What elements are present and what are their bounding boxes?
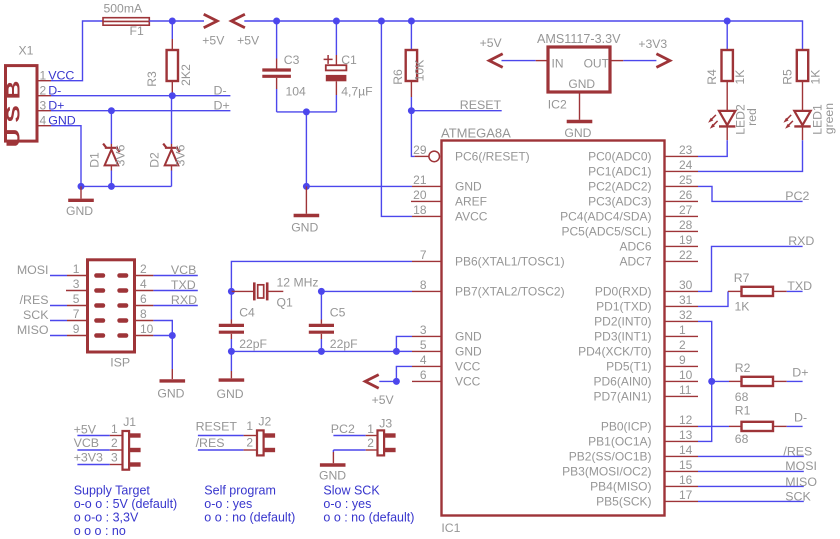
wire /RES net <box>698 455 804 457</box>
junction R6 rail <box>408 18 415 25</box>
svg-text:31: 31 <box>679 293 693 307</box>
wire C1 top <box>335 21 337 65</box>
svg-text:AREF: AREF <box>455 195 487 209</box>
svg-text:8: 8 <box>140 307 147 321</box>
label MISO right <box>785 475 817 489</box>
svg-text:1: 1 <box>111 422 118 436</box>
pin stub IC2 IN <box>536 60 548 62</box>
svg-text:IN: IN <box>552 56 564 70</box>
pin stubs IC1 left <box>411 156 442 381</box>
junction mid gnd2 <box>303 183 310 190</box>
svg-text:2: 2 <box>246 435 253 449</box>
label R2 value <box>735 390 749 404</box>
svg-text:2: 2 <box>40 83 47 97</box>
wire VCB isp <box>153 275 197 277</box>
wire D+ net <box>51 110 230 112</box>
svg-text:PD6(AIN0): PD6(AIN0) <box>593 375 651 389</box>
svg-text:10K: 10K <box>413 60 427 82</box>
svg-text:1K: 1K <box>733 70 747 85</box>
svg-text:ATMEGA8A: ATMEGA8A <box>441 125 511 140</box>
wire RXD net <box>698 246 803 291</box>
diode D1 (zener 3V6) <box>103 144 120 171</box>
wire PC2 net <box>698 186 803 201</box>
label LED2 <box>734 104 748 135</box>
svg-text:PB1(OC1A): PB1(OC1A) <box>588 435 651 449</box>
wire RESET net <box>411 110 501 112</box>
svg-text:5: 5 <box>420 338 427 352</box>
junction D1 bottom <box>108 183 115 190</box>
wires J1 <box>77 436 122 465</box>
wire C1 bottom <box>335 81 337 112</box>
svg-text:11: 11 <box>679 383 692 397</box>
svg-text:D2: D2 <box>148 152 162 168</box>
ground symbol j3 <box>320 463 346 466</box>
pin number USB 2 <box>40 83 47 97</box>
label D1 <box>88 152 102 168</box>
wire pin4 jog <box>396 366 412 381</box>
label OUT <box>584 56 610 70</box>
label ISP <box>110 355 130 369</box>
svg-text:PC5(ADC5/SCL): PC5(ADC5/SCL) <box>561 225 651 239</box>
label +3V3 j1 <box>74 451 103 465</box>
wire pin7 to xtal1 <box>231 261 412 291</box>
label GND usb sym <box>66 204 93 218</box>
svg-text:28: 28 <box>679 218 693 232</box>
pin number J2-2 <box>246 435 253 449</box>
svg-text:26: 26 <box>679 188 693 202</box>
svg-text:TXD: TXD <box>171 278 196 292</box>
junction mid gnd <box>303 108 310 115</box>
annotation text at x=323.4 <box>323 484 414 525</box>
wire TXD net <box>787 290 803 292</box>
gnd stub usb <box>80 186 82 198</box>
svg-text:D1: D1 <box>88 152 102 168</box>
svg-text:3V6: 3V6 <box>114 144 128 166</box>
pin stub R2 right <box>773 380 787 382</box>
label ATMEGA8A <box>441 125 511 140</box>
pin stub R1 right <box>773 425 787 427</box>
label VCB isp <box>171 263 196 277</box>
gnd stub mid <box>305 186 307 213</box>
svg-text:D+: D+ <box>792 366 808 380</box>
svg-text:GND: GND <box>455 345 482 359</box>
label C3 value <box>286 85 307 99</box>
wire gnd row 351 <box>231 350 396 352</box>
label R3 value <box>179 64 193 86</box>
svg-text:7: 7 <box>420 248 427 262</box>
svg-text:2: 2 <box>367 436 374 450</box>
power symbol +3V3 <box>656 54 670 68</box>
label D- end <box>214 83 227 97</box>
pin stub R2 left <box>729 380 742 382</box>
svg-text:red: red <box>745 108 759 126</box>
svg-text:4,7µF: 4,7µF <box>341 85 372 99</box>
svg-text:24: 24 <box>679 158 693 172</box>
label R7 <box>734 271 750 285</box>
wire ISP pin8 gnd <box>153 321 172 336</box>
wire J3 gnd drop <box>332 450 334 463</box>
svg-text:RESET: RESET <box>196 420 238 434</box>
jumper J3 <box>378 430 396 455</box>
label D1 value <box>114 144 128 166</box>
junction avcc rail <box>378 18 385 25</box>
label /RES j2 <box>196 436 225 450</box>
label Q1 value <box>277 275 319 289</box>
wire C4 bottom <box>230 334 232 352</box>
pin number USB 1 <box>40 68 47 82</box>
svg-text:Q1: Q1 <box>277 295 293 309</box>
svg-text:22: 22 <box>679 248 693 262</box>
wire C3 top <box>276 21 278 69</box>
svg-text:AVCC: AVCC <box>455 210 488 224</box>
label /RES isp <box>20 293 49 307</box>
connector X1 box <box>6 66 38 142</box>
label C5 value <box>330 337 358 351</box>
svg-text:16: 16 <box>679 473 693 487</box>
resistor R2 <box>742 377 774 386</box>
wire avcc <box>381 21 412 216</box>
svg-text:18: 18 <box>413 203 427 217</box>
svg-text:PC2(ADC2): PC2(ADC2) <box>588 180 651 194</box>
label R7 value <box>735 299 750 313</box>
svg-text:32: 32 <box>679 308 693 322</box>
label D2 <box>148 152 162 168</box>
svg-text:Slow SCK: Slow SCK <box>323 484 380 498</box>
pin stub IC2 GND <box>579 92 581 120</box>
junction pin3/5 gnd <box>393 348 400 355</box>
svg-text:J2: J2 <box>258 415 271 429</box>
svg-text:R6: R6 <box>391 69 405 85</box>
label SCK right <box>785 489 811 503</box>
svg-text:22pF: 22pF <box>239 337 267 351</box>
svg-text:+5V: +5V <box>480 36 503 50</box>
label R6 value <box>413 60 427 82</box>
svg-text:+3V3: +3V3 <box>638 37 667 51</box>
svg-text:6: 6 <box>140 292 147 306</box>
power symbol +5V mcu <box>365 375 379 389</box>
svg-text:2: 2 <box>679 338 686 352</box>
svg-text:ADC6: ADC6 <box>619 240 651 254</box>
svg-text:2: 2 <box>140 262 147 276</box>
jumper J1 <box>123 431 141 470</box>
crystal Q1 <box>254 282 267 300</box>
ground symbol usb <box>68 199 94 202</box>
label MISO isp <box>17 323 49 337</box>
resistor R5 <box>797 50 808 111</box>
label IC2 <box>548 98 567 112</box>
wire PC2 j3 <box>333 435 377 437</box>
svg-text:J1: J1 <box>123 415 136 429</box>
wire LED2 to pin23 <box>698 140 727 156</box>
pin stub USB 3 <box>37 110 51 112</box>
pin stub R7 left <box>728 290 742 292</box>
label LED1 color <box>822 103 836 134</box>
svg-text:PD0(RXD): PD0(RXD) <box>595 285 652 299</box>
svg-text:PD2(INT0): PD2(INT0) <box>594 315 651 329</box>
pin stub USB 2 <box>37 95 51 97</box>
pin stubs ISP left <box>66 276 88 336</box>
svg-text:8: 8 <box>420 278 427 292</box>
svg-text:ADC7: ADC7 <box>619 255 651 269</box>
svg-text:OUT: OUT <box>584 56 610 70</box>
svg-text:o o o : no: o o o : no <box>74 524 126 538</box>
svg-text:C4: C4 <box>239 305 255 319</box>
svg-text:PC0(ADC0): PC0(ADC0) <box>588 150 651 164</box>
wire D2 top <box>171 96 173 144</box>
wire pin8 to xtal2 <box>321 290 412 292</box>
wire IC2 out <box>623 60 656 62</box>
svg-text:5: 5 <box>73 292 80 306</box>
label X1 <box>19 43 34 57</box>
pin stubs ISP right <box>135 276 154 336</box>
svg-text:PB7(XTAL2/TOSC2): PB7(XTAL2/TOSC2) <box>455 285 565 299</box>
junction fuse/R3 <box>169 18 176 25</box>
label R5 value <box>808 70 822 85</box>
label +5V b <box>237 33 260 47</box>
wire MISO isp <box>50 335 67 337</box>
svg-text:green: green <box>822 103 836 134</box>
svg-text:22pF: 22pF <box>330 337 358 351</box>
wire ISP gnd drop <box>171 336 173 380</box>
svg-text:7: 7 <box>73 307 80 321</box>
junction C3 rail <box>273 18 280 25</box>
svg-text:PD1(TXD): PD1(TXD) <box>596 300 651 314</box>
wire SCK isp <box>50 320 67 322</box>
capacitor C4 <box>219 325 244 332</box>
label C1 <box>341 53 357 67</box>
wire R4 top <box>726 21 728 50</box>
svg-text:21: 21 <box>413 173 427 187</box>
svg-text:PC4(ADC4/SDA): PC4(ADC4/SDA) <box>560 210 651 224</box>
net label GND usb <box>48 113 76 127</box>
ground symbol mid <box>294 214 320 217</box>
svg-text:D-: D- <box>214 83 227 97</box>
wire MOSI net <box>698 470 804 472</box>
svg-text:3: 3 <box>40 98 47 112</box>
svg-text:IC2: IC2 <box>548 98 567 112</box>
svg-text:R1: R1 <box>735 403 751 417</box>
label J1 <box>123 415 136 429</box>
label AMS1117 <box>537 32 621 46</box>
svg-text:C5: C5 <box>330 305 346 319</box>
pin stub USB 4 <box>37 125 51 127</box>
label +5V ic2 <box>480 36 503 50</box>
label R2 <box>735 361 751 375</box>
svg-text:9: 9 <box>73 322 80 336</box>
annotation text at x=73.7 <box>74 484 178 539</box>
ground symbol xtal <box>219 378 245 381</box>
pin number J3-2 <box>367 436 374 450</box>
svg-text:1: 1 <box>246 419 253 433</box>
junction pin4/6 <box>393 378 400 385</box>
junction R2 tap <box>708 378 715 385</box>
svg-text:D-: D- <box>794 411 807 425</box>
junction xtal right <box>318 288 325 295</box>
label C5 <box>330 305 346 319</box>
svg-text:19: 19 <box>679 233 693 247</box>
wire pin3 jog <box>396 336 412 351</box>
svg-text:RXD: RXD <box>788 234 814 248</box>
svg-text:1: 1 <box>73 262 80 276</box>
label MOSI isp <box>17 263 49 277</box>
svg-text:500mA: 500mA <box>104 2 143 16</box>
junction ISP gnd <box>169 332 176 339</box>
label PC2 j3 <box>331 422 355 436</box>
wire C5 bottom <box>320 334 322 352</box>
svg-text:/RES: /RES <box>20 293 49 307</box>
svg-text:PC1(ADC1): PC1(ADC1) <box>588 165 651 179</box>
svg-text:o o : no (default): o o : no (default) <box>323 511 414 525</box>
pin number J1-3 <box>111 450 118 464</box>
wire +5V rail fuse to arrow <box>149 20 204 22</box>
svg-text:RESET: RESET <box>460 98 502 112</box>
wire IC2 in <box>502 60 536 62</box>
label J2 <box>258 415 271 429</box>
label J3 <box>379 416 392 430</box>
fuse F1 <box>103 18 149 26</box>
label TXD isp <box>171 278 196 292</box>
power symbol +5V left arrow <box>231 14 245 28</box>
jumper J2 <box>257 430 275 455</box>
svg-text:13: 13 <box>679 428 693 442</box>
svg-text:VCB: VCB <box>74 436 99 450</box>
svg-text:Self program: Self program <box>204 484 276 498</box>
junction C1 rail <box>333 18 340 25</box>
resistor R1 <box>742 422 774 431</box>
label D+ right <box>792 366 808 380</box>
svg-text:17: 17 <box>679 488 693 502</box>
junction R3/D2 on D- <box>169 92 176 99</box>
svg-text:25: 25 <box>679 173 693 187</box>
label SCK isp <box>23 308 49 322</box>
svg-text:+5V: +5V <box>372 393 395 407</box>
svg-text:C3: C3 <box>284 53 300 67</box>
label F1 name <box>130 24 144 38</box>
svg-text:o-o : yes: o-o : yes <box>204 497 252 511</box>
label GND xtal <box>217 387 244 401</box>
svg-text:3: 3 <box>420 323 427 337</box>
svg-text:104: 104 <box>286 85 307 99</box>
svg-text:R4: R4 <box>705 69 719 85</box>
label LED1 <box>810 104 824 135</box>
led LED1 green <box>783 111 810 140</box>
svg-text:PD5(T1): PD5(T1) <box>606 360 651 374</box>
svg-text:9: 9 <box>679 353 686 367</box>
pin number USB 3 <box>40 98 47 112</box>
label RXD isp <box>171 293 197 307</box>
wire VCC from USB pin1 to fuse <box>51 21 103 81</box>
label IC1 <box>441 521 460 535</box>
mcu IC1 box <box>442 141 665 516</box>
svg-text:PB2(SS/OC1B): PB2(SS/OC1B) <box>569 450 652 464</box>
svg-text:GND: GND <box>564 126 591 140</box>
label TXD right <box>787 279 812 293</box>
svg-text:1: 1 <box>367 422 374 436</box>
pin names IC1 left inside <box>455 150 565 389</box>
svg-text:C1: C1 <box>341 53 357 67</box>
label R1 value <box>735 432 749 446</box>
led LED2 red <box>708 111 735 140</box>
svg-text:+5V: +5V <box>237 33 260 47</box>
label D2 value <box>174 144 188 166</box>
svg-text:/RES: /RES <box>196 436 225 450</box>
svg-text:R5: R5 <box>781 69 795 85</box>
resistor R6 <box>406 50 417 97</box>
label R6 <box>391 69 405 85</box>
label IN <box>552 56 564 70</box>
svg-text:VCC: VCC <box>455 375 481 389</box>
diode D2 (zener 3V6) <box>163 144 180 171</box>
svg-text:R7: R7 <box>734 271 750 285</box>
net label D- usb <box>48 83 61 97</box>
svg-text:GND: GND <box>157 386 184 400</box>
label Q1 <box>277 295 293 309</box>
pin stub R1 left <box>729 425 742 427</box>
ground symbol ic2 <box>567 120 593 123</box>
capacitor C5 <box>309 325 334 332</box>
junction D1 on D+ <box>108 107 115 114</box>
label GND isp <box>157 386 184 400</box>
wire D- net <box>51 95 230 97</box>
svg-text:TXD: TXD <box>787 279 812 293</box>
svg-text:Supply Target: Supply Target <box>74 484 151 498</box>
wire pin5 <box>396 350 412 352</box>
svg-text:30: 30 <box>679 278 693 292</box>
wire C3 bottom <box>276 78 278 112</box>
wire +5V rail main <box>244 21 802 37</box>
svg-text:o o-o : 3,3V: o o-o : 3,3V <box>74 511 139 525</box>
svg-text:+5V: +5V <box>202 33 225 47</box>
wire USB GND down <box>51 126 81 187</box>
svg-text:PB5(SCK): PB5(SCK) <box>596 495 651 509</box>
svg-text:/RES: /RES <box>783 444 812 458</box>
svg-text:USB: USB <box>3 75 23 148</box>
svg-text:GND: GND <box>455 330 482 344</box>
svg-text:AMS1117-3.3V: AMS1117-3.3V <box>537 32 621 46</box>
svg-text:+3V3: +3V3 <box>74 451 103 465</box>
wire D+ right <box>787 380 803 382</box>
label D- right <box>794 411 807 425</box>
label C4 value <box>239 337 267 351</box>
pin stub Q1 right <box>268 290 283 292</box>
wire C4 gnd drop <box>230 351 232 378</box>
svg-text:GND: GND <box>319 469 346 483</box>
label GND mid <box>291 220 318 234</box>
pin numbers IC1 right <box>679 143 693 502</box>
pin numbers ISP right <box>140 262 154 336</box>
wire C4 top <box>230 291 232 323</box>
label +3V3 <box>638 37 667 51</box>
svg-text:SCK: SCK <box>23 308 49 322</box>
wire TXD isp <box>153 290 197 292</box>
pin stubs IC1 right <box>665 156 699 501</box>
svg-text:10: 10 <box>140 322 154 336</box>
svg-text:1K: 1K <box>735 299 750 313</box>
pin numbers ISP left <box>73 262 80 336</box>
label USB <box>3 75 23 148</box>
svg-text:PD4(XCK/T0): PD4(XCK/T0) <box>578 345 651 359</box>
pin number J1-2 <box>111 436 118 450</box>
pin stub USB 1 <box>37 80 51 82</box>
junction R4 rail <box>724 18 731 25</box>
wire pin6 +5V <box>379 380 396 382</box>
capacitor C3 <box>262 70 291 76</box>
svg-text:GND: GND <box>66 204 93 218</box>
svg-text:X1: X1 <box>19 43 34 57</box>
svg-text:14: 14 <box>679 443 693 457</box>
svg-text:F1: F1 <box>130 24 144 38</box>
pin stub R7 right <box>773 290 787 292</box>
